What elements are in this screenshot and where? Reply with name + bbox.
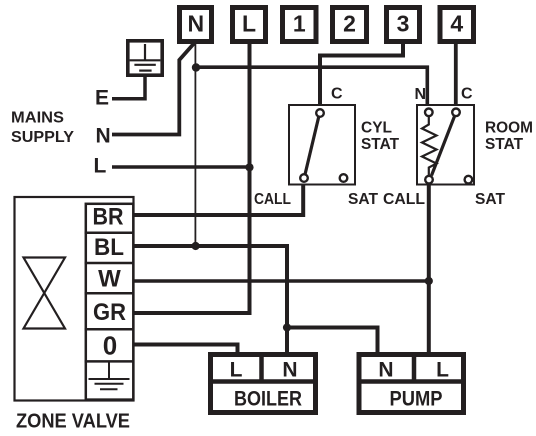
wire 0 to boiler L (133, 345, 238, 354)
svg-text:L: L (230, 358, 243, 381)
svg-text:CALL: CALL (254, 191, 291, 208)
wire terminal 3 to cyl stat C (320, 44, 403, 110)
pump box (359, 355, 464, 413)
svg-text:SAT: SAT (348, 191, 378, 208)
junction dot boiler/pump N (283, 323, 291, 331)
zone valve row border 0/earth (85, 360, 135, 363)
pump divider horizontal (357, 379, 467, 384)
room stat resistor (422, 112, 437, 176)
wire neutral thin: N box down to BL junction (194, 44, 196, 246)
wire neutral to room stat N (195, 67, 427, 109)
svg-text:CALL: CALL (383, 191, 425, 208)
svg-text:C: C (331, 86, 343, 103)
svg-text:PUMP: PUMP (390, 387, 443, 410)
svg-text:SAT: SAT (475, 191, 505, 208)
zone valve symbol (24, 258, 66, 329)
wire BR to cyl stat call (133, 182, 303, 215)
svg-text:GR: GR (93, 299, 126, 326)
svg-text:ZONE VALVE: ZONE VALVE (16, 409, 130, 432)
svg-text:STAT: STAT (485, 136, 523, 153)
svg-text:CYL: CYL (361, 119, 392, 136)
svg-text:1: 1 (293, 11, 306, 37)
cyl stat box (289, 105, 355, 185)
zone valve row border BL/W (85, 262, 135, 265)
room stat terminal call (425, 176, 433, 184)
svg-text:MAINS: MAINS (11, 110, 64, 127)
zone valve outer box (15, 197, 134, 401)
svg-text:N: N (378, 358, 393, 381)
junction dot BL neutral (192, 242, 200, 250)
zone valve row border BR/BL (85, 232, 135, 235)
boiler divider vertical (259, 354, 264, 382)
zone valve earth symbol (89, 363, 130, 390)
svg-text:STAT: STAT (361, 136, 399, 153)
svg-text:L: L (436, 358, 449, 381)
terminal box 2 (333, 8, 367, 42)
svg-text:N: N (415, 86, 427, 103)
junction dot N line (192, 63, 200, 71)
room stat terminal C (452, 109, 460, 117)
terminal box L (233, 8, 266, 42)
wire W to pump L line (133, 279, 429, 283)
cyl stat switch arm (305, 117, 319, 175)
mains earth symbol (130, 44, 161, 71)
cyl stat terminal C (316, 109, 324, 117)
svg-text:E: E (95, 87, 109, 110)
svg-text:BOILER: BOILER (234, 387, 302, 410)
wire N mains: N label to N terminal box (112, 43, 195, 135)
svg-text:L: L (94, 155, 107, 178)
zone valve terminal column (86, 204, 134, 400)
room stat switch arm (432, 116, 455, 176)
zone valve row border W/GR (85, 292, 135, 295)
junction dot L mains (245, 163, 253, 171)
svg-text:ROOM: ROOM (485, 119, 533, 136)
svg-text:W: W (98, 266, 121, 293)
svg-text:0: 0 (103, 331, 117, 361)
terminal box 1 (283, 8, 317, 42)
wire L mains: L label to L line junction (112, 165, 252, 169)
pump divider vertical (412, 354, 417, 382)
cyl stat terminal sat (340, 174, 348, 182)
terminal box 3 (387, 8, 420, 42)
room stat terminal N (425, 109, 433, 117)
terminal box N (180, 8, 212, 42)
room stat box (417, 105, 474, 185)
svg-text:SUPPLY: SUPPLY (11, 129, 75, 146)
zone valve row border GR/0 (85, 328, 135, 331)
wire L box down to GR terminal (133, 44, 250, 313)
svg-text:4: 4 (450, 11, 463, 37)
svg-text:BL: BL (94, 234, 124, 261)
svg-text:N: N (282, 358, 297, 381)
wire room stat call to pump L (427, 183, 431, 353)
boiler divider horizontal (208, 379, 318, 384)
svg-text:2: 2 (343, 11, 356, 37)
wire terminal 4 to room stat C (454, 44, 458, 109)
svg-text:3: 3 (397, 11, 410, 37)
cyl stat terminal call (300, 174, 308, 182)
mains earth symbol box (128, 41, 162, 75)
wire E: earth box to E label (112, 77, 145, 99)
terminal box 4 (440, 8, 474, 42)
svg-text:N: N (96, 125, 111, 148)
wire BL to boiler N (133, 246, 287, 353)
junction dot W / pump L (425, 277, 433, 285)
boiler box (211, 355, 316, 413)
svg-text:L: L (242, 11, 256, 37)
svg-text:BR: BR (93, 204, 124, 231)
svg-text:C: C (461, 86, 473, 103)
wire boiler N to pump N (287, 328, 378, 354)
room stat terminal sat (465, 176, 473, 184)
svg-text:N: N (187, 11, 204, 37)
